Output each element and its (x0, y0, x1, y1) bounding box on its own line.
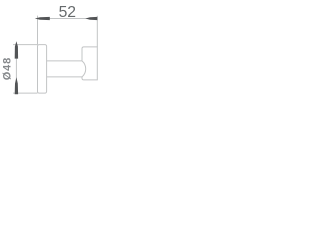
stem top edge (47, 60, 82, 62)
extension line top of diameter 48 (13, 44, 38, 46)
arrowhead top of diameter 48 (15, 41, 18, 58)
extension line left of 52 (37, 16, 39, 45)
stem bottom edge (47, 76, 82, 78)
arrowhead bottom of diameter 48 (15, 77, 18, 94)
svg-text:52: 52 (59, 4, 76, 21)
extension line bottom of diameter 48 (13, 92, 38, 94)
technical drawing: wall hook side view with dimensions (0, 0, 100, 100)
arrowhead right of 52 (85, 17, 97, 20)
fillet arc at stem-plate junction (82, 61, 86, 77)
svg-text:Ø48: Ø48 (1, 57, 13, 80)
wall plate outline (82, 47, 97, 80)
knob disc (front plate, side view) (38, 45, 47, 94)
dimension line 52 (38, 18, 98, 20)
extension line right of 52 (wall line) (96, 16, 98, 47)
dimension line diameter 48 (15, 45, 17, 94)
arrowhead left of 52 (35, 17, 50, 20)
